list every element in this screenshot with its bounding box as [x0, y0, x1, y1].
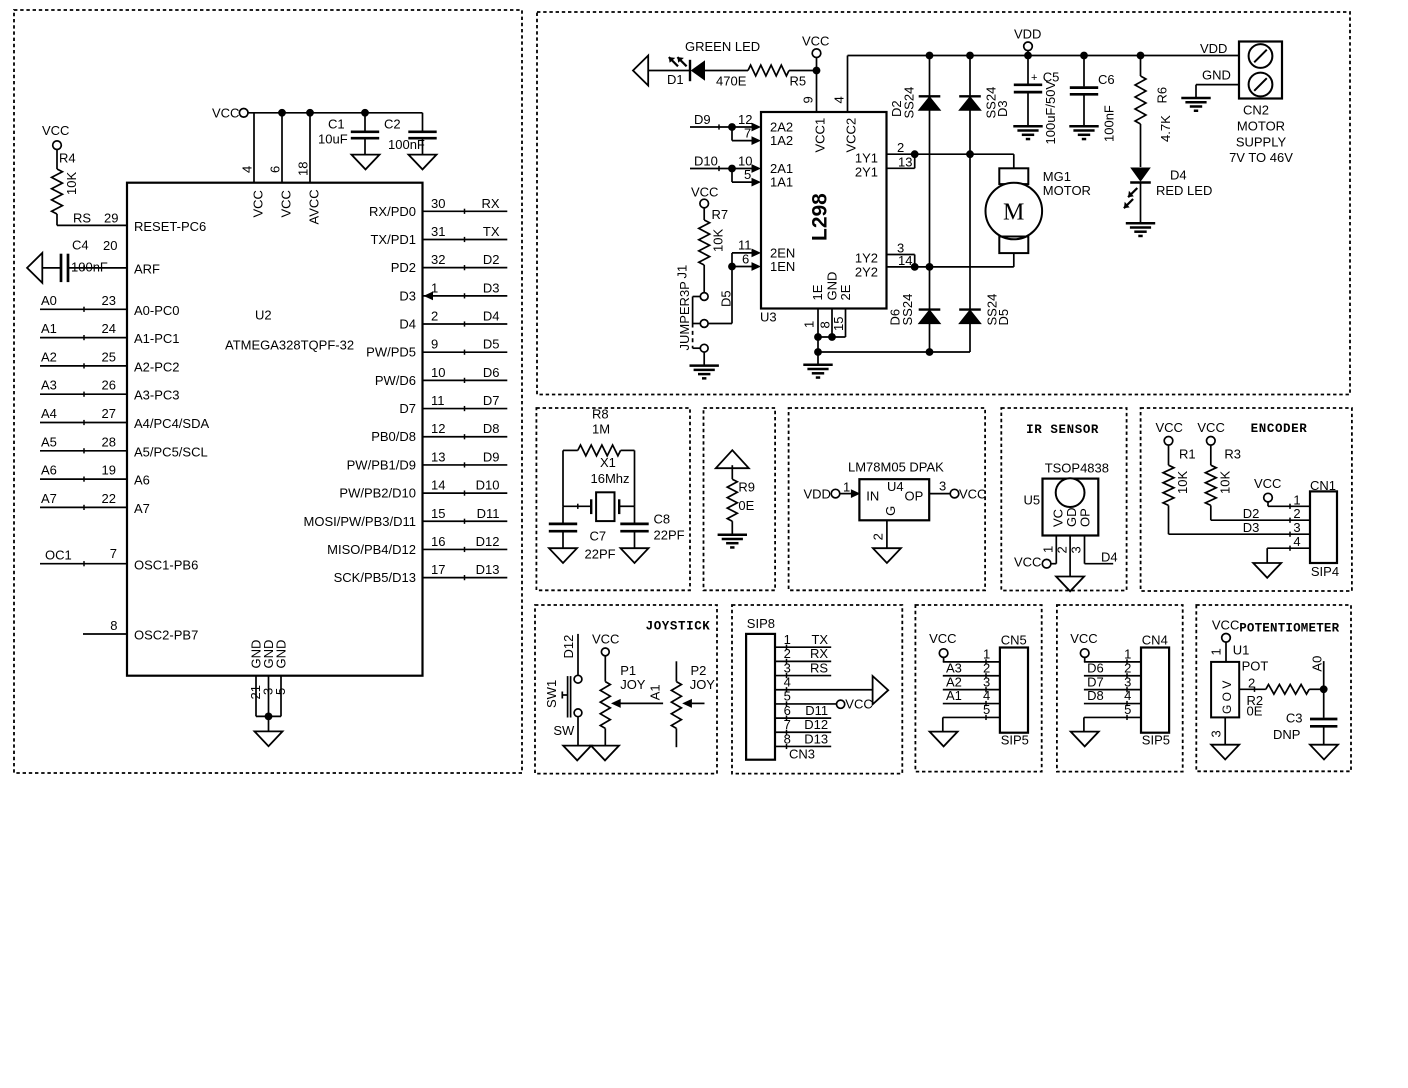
svg-text:MOSI/PW/PB3/D11: MOSI/PW/PB3/D11 [304, 514, 416, 529]
wire net A3 to pin 26 [40, 393, 127, 395]
svg-text:R4: R4 [59, 151, 76, 166]
wire VCC2 pin 4 riser [847, 56, 849, 113]
wire 2E pin 15 [845, 309, 847, 338]
svg-text:A4/PC4/SDA: A4/PC4/SDA [134, 416, 209, 431]
dashed frame: digital header CN4 [1057, 605, 1183, 772]
svg-text:TX: TX [483, 224, 500, 239]
svg-text:VCC: VCC [802, 34, 829, 49]
svg-text:12: 12 [431, 421, 445, 436]
svg-text:POT: POT [1242, 659, 1269, 674]
svg-text:ENCODER: ENCODER [1251, 422, 1308, 436]
wire CN5 pin1 from VCC [943, 657, 945, 662]
svg-text:1A1: 1A1 [770, 175, 793, 190]
wire CN4 pin5 to ground [1083, 717, 1085, 731]
wire net D5 pin 9 [423, 351, 508, 353]
svg-text:A1: A1 [41, 321, 57, 336]
wire motor terminal 1 [915, 153, 1014, 155]
wire CN5 pin 5 [943, 716, 1000, 718]
svg-text:C2: C2 [384, 117, 401, 132]
diode D2 SS24 [919, 95, 941, 97]
svg-text:D5: D5 [483, 337, 500, 352]
svg-text:5: 5 [273, 688, 288, 695]
svg-text:3: 3 [1124, 674, 1131, 689]
svg-text:OSC1-PB6: OSC1-PB6 [134, 558, 198, 573]
svg-text:VCC: VCC [251, 190, 266, 217]
svg-text:16: 16 [431, 534, 445, 549]
wire J1 pin3 to ground [703, 352, 705, 366]
wire U5 pin 2 to ground [1069, 536, 1071, 577]
svg-text:17: 17 [431, 562, 445, 577]
svg-text:A3-PC3: A3-PC3 [134, 388, 180, 403]
svg-text:1M: 1M [592, 422, 610, 437]
wire CN1 pin 4 to ground [1267, 547, 1310, 549]
wire net D13 pin 17 [423, 577, 508, 579]
wire CN5 pin5 to ground [942, 717, 944, 731]
svg-text:D4: D4 [399, 317, 416, 332]
wire net A2 to pin 25 [40, 365, 127, 367]
svg-text:3: 3 [983, 674, 990, 689]
svg-text:U1: U1 [1233, 643, 1250, 658]
ground under C3 [1310, 745, 1338, 760]
svg-text:D7: D7 [483, 393, 500, 408]
svg-text:CN4: CN4 [1142, 632, 1168, 647]
svg-text:A6: A6 [41, 463, 57, 478]
svg-text:14: 14 [898, 253, 912, 268]
wire CN1 pin 2 net D2 [1211, 519, 1310, 521]
svg-text:19: 19 [102, 463, 116, 478]
svg-text:1Y2: 1Y2 [855, 251, 878, 266]
potentiometer P1 JOY [604, 656, 606, 682]
svg-text:D13: D13 [804, 731, 828, 746]
svg-text:RX: RX [810, 646, 828, 661]
svg-text:VDD: VDD [1014, 27, 1041, 42]
svg-text:9: 9 [431, 337, 438, 352]
svg-text:MISO/PB4/D12: MISO/PB4/D12 [327, 542, 416, 557]
svg-text:RED LED: RED LED [1156, 183, 1212, 198]
svg-text:22PF: 22PF [654, 528, 685, 543]
wire CN4 pin1 from VCC [1084, 657, 1086, 662]
svg-text:6: 6 [784, 703, 791, 718]
svg-text:100nF: 100nF [71, 260, 108, 275]
svg-text:22: 22 [102, 491, 116, 506]
svg-text:G: G [883, 506, 898, 516]
svg-text:10K: 10K [711, 229, 726, 252]
svg-text:D2: D2 [483, 252, 500, 267]
svg-text:C1: C1 [328, 117, 345, 132]
svg-text:2: 2 [983, 660, 990, 675]
svg-text:1: 1 [1293, 492, 1300, 507]
resistor R7 10K [703, 208, 705, 220]
wire CN3 pin 5 [775, 703, 836, 705]
svg-text:7V TO 46V: 7V TO 46V [1229, 150, 1293, 165]
svg-text:VDD: VDD [1200, 41, 1227, 56]
svg-text:4: 4 [983, 688, 990, 703]
diode D5 SS24 [959, 308, 981, 310]
wire CN4 pin 5 [1084, 716, 1141, 718]
svg-text:D10: D10 [476, 478, 500, 493]
svg-text:VCC: VCC [691, 185, 718, 200]
svg-text:D12: D12 [804, 717, 828, 732]
wire net D7 pin 11 [423, 408, 508, 410]
svg-text:U5: U5 [1024, 493, 1041, 508]
capacitor C2 100nF [422, 113, 424, 131]
svg-text:15: 15 [831, 317, 846, 331]
svg-text:D2: D2 [1243, 506, 1260, 521]
svg-text:R7: R7 [712, 207, 729, 222]
svg-text:13: 13 [898, 154, 912, 169]
svg-text:D8: D8 [1087, 688, 1104, 703]
svg-text:CN5: CN5 [1001, 632, 1027, 647]
svg-text:RX: RX [481, 196, 499, 211]
svg-text:A3: A3 [41, 378, 57, 393]
svg-text:AVCC: AVCC [307, 189, 322, 224]
svg-text:SIP5: SIP5 [1001, 733, 1029, 748]
svg-text:D3: D3 [995, 100, 1010, 117]
svg-text:GND: GND [1202, 67, 1231, 82]
wire GND pin 21 [255, 676, 257, 717]
svg-text:28: 28 [102, 434, 116, 449]
svg-text:29: 29 [104, 211, 118, 226]
svg-text:3: 3 [1293, 520, 1300, 535]
svg-text:D11: D11 [477, 506, 500, 521]
svg-text:D5: D5 [719, 290, 734, 307]
svg-text:VCC1: VCC1 [813, 118, 828, 153]
wire net D12 pin 16 [423, 548, 508, 550]
wire GND pin 8 [831, 309, 833, 338]
svg-text:G O V: G O V [1220, 681, 1234, 714]
svg-text:D3: D3 [483, 280, 500, 295]
svg-text:3: 3 [1209, 730, 1224, 737]
wire regulator ground pin 2 [886, 520, 888, 548]
node VCC (CN3 pin5) [837, 700, 845, 708]
wire VDD rail [848, 55, 1240, 57]
svg-text:P2: P2 [691, 663, 707, 678]
ground under C5 [1013, 125, 1042, 128]
svg-text:C3: C3 [1286, 711, 1303, 726]
svg-text:OSC2-PB7: OSC2-PB7 [134, 628, 198, 643]
svg-text:A5/PC5/SCL: A5/PC5/SCL [134, 444, 208, 459]
dashed frame: microcontroller section [14, 10, 522, 773]
svg-text:CN2: CN2 [1243, 103, 1269, 118]
svg-text:2: 2 [871, 533, 886, 540]
capacitor C3 DNP [1323, 689, 1325, 718]
svg-text:11: 11 [431, 393, 445, 408]
svg-text:D6: D6 [1087, 660, 1104, 675]
wire net A7 to pin 22 [40, 506, 127, 508]
svg-text:LM78M05 DPAK: LM78M05 DPAK [848, 460, 944, 475]
svg-text:MOTOR: MOTOR [1043, 183, 1091, 198]
svg-text:20: 20 [103, 238, 117, 253]
svg-text:D4: D4 [483, 309, 500, 324]
svg-text:R5: R5 [790, 74, 807, 89]
svg-text:1Y1: 1Y1 [855, 151, 878, 166]
wire CN3 pin 4 [775, 689, 873, 691]
wire pin18 drop [309, 113, 311, 183]
svg-text:A0-PC0: A0-PC0 [134, 303, 180, 318]
svg-text:A7: A7 [41, 491, 57, 506]
svg-text:D5: D5 [996, 309, 1011, 326]
svg-text:VCC: VCC [1014, 555, 1041, 570]
wire GND pin 5 [280, 676, 282, 717]
LED D4 RED LED [1130, 168, 1151, 182]
dashed frame: analog header CN5 [915, 605, 1041, 772]
dashed frame: R9 strap [704, 408, 776, 590]
svg-text:4.7K: 4.7K [1158, 115, 1173, 142]
svg-text:L298: L298 [809, 193, 832, 241]
svg-text:D12: D12 [476, 534, 500, 549]
svg-text:RS: RS [73, 211, 91, 226]
wire 1E pin 1 [817, 309, 819, 353]
capacitor C5 100uF/50V [1027, 56, 1029, 84]
svg-text:M: M [1003, 200, 1024, 226]
LED D1 GREEN LED [648, 70, 690, 72]
svg-text:SS24: SS24 [902, 87, 917, 119]
svg-text:VCC: VCC [1254, 476, 1281, 491]
IC U3 L298 body [761, 112, 887, 309]
svg-text:2: 2 [1054, 546, 1069, 553]
VCC arrow (R9) [716, 450, 749, 468]
svg-text:A2-PC2: A2-PC2 [134, 359, 180, 374]
ground under D4 [1126, 222, 1155, 225]
svg-text:SW: SW [553, 723, 575, 738]
net label A0 wire [1323, 661, 1325, 689]
svg-text:JOY: JOY [690, 677, 716, 692]
svg-text:U3: U3 [760, 310, 777, 325]
svg-text:15: 15 [431, 506, 445, 521]
dashed frame: crystal oscillator [536, 408, 690, 590]
svg-text:1: 1 [784, 632, 791, 647]
svg-text:1: 1 [1041, 546, 1056, 553]
svg-text:4: 4 [1124, 688, 1131, 703]
svg-text:D7: D7 [1087, 674, 1104, 689]
svg-text:U4: U4 [887, 479, 904, 494]
svg-text:MOTOR: MOTOR [1237, 119, 1285, 134]
svg-text:4: 4 [784, 675, 791, 690]
svg-text:1: 1 [1209, 648, 1224, 655]
ground under C6 [1069, 125, 1098, 128]
svg-text:SIP8: SIP8 [747, 616, 775, 631]
wire net D3 pin 1 [423, 295, 508, 297]
wire power ground bus [818, 351, 970, 353]
svg-text:2: 2 [431, 309, 438, 324]
svg-text:D4: D4 [1170, 168, 1187, 183]
svg-text:SIP5: SIP5 [1142, 733, 1170, 748]
ground arrow (D1 cathode) [633, 56, 648, 86]
svg-text:10K: 10K [1175, 471, 1190, 494]
svg-text:SCK/PB5/D13: SCK/PB5/D13 [334, 570, 416, 585]
svg-text:5: 5 [983, 702, 990, 717]
svg-text:U2: U2 [255, 308, 272, 323]
wire CN4 pin 1 [1084, 661, 1141, 663]
svg-text:5: 5 [784, 689, 791, 704]
wire net D9 pin 13 [423, 464, 508, 466]
svg-text:VCC: VCC [1197, 420, 1224, 435]
wire CN5 pin 1 [943, 661, 1000, 663]
wire diode column 2 [969, 56, 971, 353]
wire CN5 pin 2 net A3 [943, 675, 1000, 677]
svg-text:C4: C4 [72, 238, 89, 253]
svg-text:31: 31 [431, 224, 445, 239]
wire motor terminal 2 [915, 266, 1014, 268]
svg-text:D7: D7 [399, 401, 416, 416]
svg-text:CN3: CN3 [789, 747, 815, 762]
wire net A1 to pin 24 [40, 337, 127, 339]
svg-text:VCC: VCC [929, 631, 956, 646]
svg-text:D3: D3 [399, 288, 416, 303]
capacitor C7 22PF [562, 506, 564, 522]
svg-text:VCC: VCC [592, 631, 619, 646]
svg-text:1: 1 [843, 479, 850, 494]
svg-text:9: 9 [801, 96, 816, 103]
svg-text:ATMEGA328TQPF-32: ATMEGA328TQPF-32 [225, 338, 354, 353]
svg-text:VCC2: VCC2 [844, 118, 859, 153]
dashed frame: joystick [535, 605, 717, 774]
svg-text:D11: D11 [805, 703, 828, 718]
svg-text:2: 2 [784, 646, 791, 661]
svg-text:A1: A1 [648, 684, 663, 700]
svg-text:D3: D3 [1243, 520, 1260, 535]
svg-text:3: 3 [1069, 546, 1084, 553]
svg-text:D6: D6 [483, 365, 500, 380]
potentiometer P2 JOY [675, 661, 677, 681]
dashed frame: potentiometer [1196, 605, 1351, 771]
svg-text:25: 25 [102, 349, 116, 364]
ground under U2 [255, 731, 283, 746]
svg-text:32: 32 [431, 252, 445, 267]
svg-text:13: 13 [431, 449, 445, 464]
svg-text:SS24: SS24 [900, 294, 915, 326]
svg-text:RS: RS [810, 660, 828, 675]
ground under C2 [409, 155, 437, 170]
wire net A0 to pin 23 [40, 308, 127, 310]
wire D10 to pins 10/5 [690, 168, 732, 170]
resistor R9 0E [731, 465, 733, 479]
svg-text:D9: D9 [483, 449, 500, 464]
svg-text:R6: R6 [1155, 87, 1170, 104]
wire net TX pin 31 [423, 238, 508, 240]
wire U5 pin 3 to D4 net [1084, 536, 1086, 564]
svg-text:26: 26 [102, 378, 116, 393]
svg-text:VDD: VDD [804, 486, 831, 501]
pin stub 1Y2/2Y2 (pins 3/14) [887, 254, 915, 256]
svg-text:A7: A7 [134, 501, 150, 516]
resistor R5 470E [748, 65, 789, 76]
wire net RX pin 30 [423, 210, 508, 212]
svg-text:PD2: PD2 [391, 260, 416, 275]
svg-text:4: 4 [240, 166, 255, 173]
svg-text:PW/PB1/D9: PW/PB1/D9 [347, 457, 416, 472]
wire CN3 pin 2 net RX [775, 660, 831, 662]
svg-text:7: 7 [110, 546, 117, 561]
svg-text:R3: R3 [1224, 447, 1241, 462]
svg-text:A2: A2 [41, 349, 57, 364]
wire U1 pin 3 to ground [1224, 717, 1226, 744]
wire CN5 pin 3 net A2 [943, 689, 1000, 691]
svg-text:2Y2: 2Y2 [855, 265, 878, 280]
svg-text:8: 8 [110, 618, 117, 633]
svg-text:R9: R9 [738, 480, 755, 495]
svg-text:ARF: ARF [134, 262, 160, 277]
svg-text:1EN: 1EN [770, 259, 795, 274]
svg-text:C8: C8 [654, 512, 671, 527]
svg-text:OP: OP [1078, 508, 1093, 527]
wire net D10 pin 14 [423, 492, 508, 494]
wire CN3 pin 6 net D11 [775, 717, 831, 719]
svg-text:PW/PB2/D10: PW/PB2/D10 [339, 486, 416, 501]
svg-text:VCC: VCC [279, 190, 294, 217]
svg-text:D12: D12 [561, 635, 576, 659]
svg-text:470E: 470E [716, 74, 747, 89]
svg-text:2: 2 [897, 140, 904, 155]
svg-text:SIP4: SIP4 [1311, 564, 1339, 579]
diode D6 SS24 [919, 308, 941, 310]
wire RS net to RESET pin 29 [57, 224, 127, 226]
svg-text:1E: 1E [810, 284, 825, 300]
wire diode column 1 [929, 56, 931, 353]
wire pin6 drop [281, 113, 283, 183]
svg-text:A2: A2 [946, 674, 962, 689]
svg-text:4: 4 [832, 96, 847, 103]
svg-text:18: 18 [296, 162, 311, 176]
svg-text:A1-PC1: A1-PC1 [134, 331, 180, 346]
svg-text:SUPPLY: SUPPLY [1236, 135, 1287, 150]
wire D1 to R5 [705, 70, 748, 72]
svg-text:A0: A0 [1310, 656, 1325, 672]
svg-text:IR SENSOR: IR SENSOR [1026, 423, 1099, 437]
wire VCC rail to pins 4/6/18 and C1 C2 [248, 112, 423, 114]
wire net A5 to pin 28 [40, 450, 127, 452]
wire CN3 pin 1 net TX [775, 646, 831, 648]
svg-text:D8: D8 [483, 421, 500, 436]
svg-text:GREEN LED: GREEN LED [685, 39, 760, 54]
ground under C7 [549, 548, 577, 563]
svg-text:A0: A0 [41, 293, 57, 308]
ground at CN2 [1181, 97, 1210, 100]
capacitor C8 22PF [634, 506, 636, 522]
svg-text:6: 6 [742, 251, 749, 266]
ground under U4 [873, 548, 901, 563]
wire CN3 pin 8 net D13 [775, 745, 831, 747]
svg-text:VCC: VCC [1156, 420, 1183, 435]
capacitor C1 10uF [364, 113, 366, 131]
ground under P1 [591, 746, 619, 761]
resistor R2 0E [1266, 685, 1309, 695]
svg-text:VCC: VCC [212, 106, 239, 121]
wire pin 8 OSC2-PB7 [83, 633, 127, 635]
svg-text:1A2: 1A2 [770, 133, 793, 148]
svg-text:24: 24 [102, 321, 116, 336]
svg-text:JUMPER3P: JUMPER3P [677, 281, 692, 350]
svg-text:30: 30 [431, 196, 445, 211]
svg-text:PW/D6: PW/D6 [375, 373, 416, 388]
svg-text:2Y1: 2Y1 [855, 164, 878, 179]
svg-text:3: 3 [784, 660, 791, 675]
svg-text:10: 10 [431, 365, 445, 380]
svg-text:GND: GND [274, 640, 289, 669]
svg-text:D9: D9 [694, 112, 711, 127]
svg-text:2E: 2E [838, 284, 853, 300]
wire net D2 pin 32 [423, 267, 508, 269]
svg-text:TX: TX [811, 632, 828, 647]
ground under C8 [621, 548, 649, 563]
wire SW1 to ground [577, 717, 579, 746]
svg-text:A1: A1 [946, 688, 962, 703]
wire net OC1 to pin 7 OSC1-PB6 [40, 563, 127, 565]
svg-text:10K: 10K [64, 172, 79, 195]
IC U2 ATMEGA328 body [127, 183, 423, 676]
svg-text:OP: OP [905, 488, 924, 503]
svg-text:0E: 0E [738, 498, 754, 513]
